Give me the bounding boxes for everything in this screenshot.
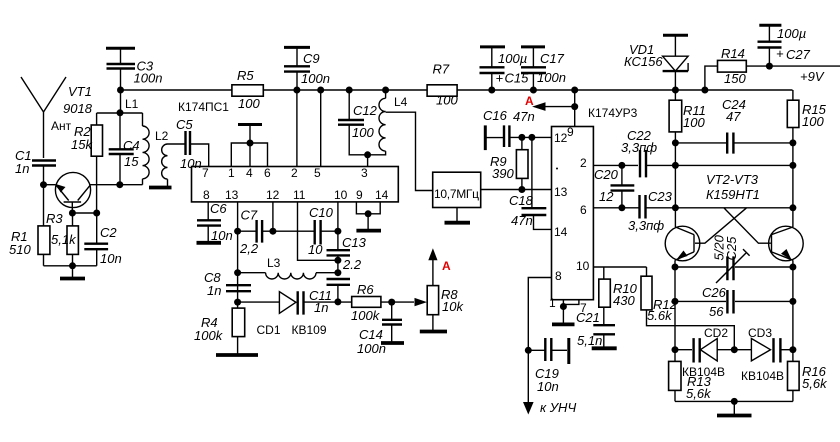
svg-text:12: 12 bbox=[599, 189, 614, 204]
svg-text:C6: C6 bbox=[210, 201, 227, 216]
terminal above C15 bbox=[480, 47, 505, 67]
wire pin6 row bbox=[593, 204, 638, 211]
svg-text:100k: 100k bbox=[351, 308, 381, 323]
capacitor C22 bbox=[621, 128, 675, 177]
svg-text:4: 4 bbox=[246, 166, 253, 180]
terminal above VD1 bbox=[663, 35, 688, 56]
svg-text:12: 12 bbox=[266, 188, 280, 202]
ground bbox=[60, 266, 85, 279]
wire pin13 column bbox=[234, 202, 241, 306]
wire pin2 column bbox=[296, 90, 298, 167]
svg-text:10n: 10n bbox=[100, 251, 122, 266]
filter 10.7MHz bbox=[433, 172, 481, 207]
svg-text:А: А bbox=[525, 94, 534, 108]
svg-text:R7: R7 bbox=[433, 62, 450, 77]
svg-text:2: 2 bbox=[580, 156, 587, 170]
svg-text:10: 10 bbox=[334, 188, 348, 202]
node A arrow at pin9 bbox=[525, 87, 578, 111]
svg-text:1n: 1n bbox=[207, 283, 221, 298]
capacitor C9 bbox=[284, 51, 330, 90]
transistor VT1 bbox=[55, 84, 92, 213]
svg-text:100: 100 bbox=[683, 115, 705, 130]
wire pin10 row bbox=[593, 266, 646, 268]
wire base node bbox=[40, 181, 56, 188]
varicap CD3 КВ104В bbox=[734, 326, 796, 383]
capacitor C18 bbox=[509, 137, 552, 229]
svg-text:2: 2 bbox=[291, 166, 298, 180]
wire row3 collectors bbox=[672, 204, 797, 211]
svg-text:К159НТ1: К159НТ1 bbox=[706, 187, 760, 202]
resistor R5 bbox=[232, 68, 263, 111]
op-amp U1 К174ПС1 bbox=[178, 100, 398, 202]
svg-text:11: 11 bbox=[293, 188, 306, 202]
svg-text:+9V: +9V bbox=[800, 69, 825, 84]
wire pin12 column bbox=[269, 202, 276, 235]
ground bbox=[445, 208, 471, 223]
inductor L3 bbox=[238, 256, 342, 279]
wire left column bbox=[674, 143, 676, 350]
svg-text:100µ: 100µ bbox=[498, 51, 527, 66]
ground bbox=[420, 315, 447, 332]
terminal above C27 bbox=[759, 25, 781, 41]
svg-text:2.2: 2.2 bbox=[342, 257, 362, 272]
svg-text:C14: C14 bbox=[359, 327, 383, 342]
svg-text:C16: C16 bbox=[483, 108, 508, 123]
svg-text:C2: C2 bbox=[100, 225, 117, 240]
capacitor C3 bbox=[107, 59, 163, 91]
transistor VT2 bbox=[665, 172, 760, 261]
svg-text:C9: C9 bbox=[303, 51, 320, 66]
capacitor C23 bbox=[628, 189, 675, 233]
wire bottom row bbox=[44, 262, 97, 269]
resistor R12 bbox=[641, 267, 734, 350]
svg-text:L4: L4 bbox=[394, 95, 408, 109]
svg-text:C21: C21 bbox=[576, 310, 600, 325]
svg-text:К174ПС1: К174ПС1 bbox=[178, 100, 229, 114]
wire L4 tap to filter bbox=[386, 112, 433, 190]
svg-text:C13: C13 bbox=[342, 235, 367, 250]
wire pin10 column bbox=[334, 202, 341, 250]
svg-text:9018: 9018 bbox=[63, 101, 93, 116]
svg-text:8: 8 bbox=[555, 269, 562, 283]
svg-text:5,1k: 5,1k bbox=[51, 232, 77, 247]
capacitor C10 bbox=[273, 205, 338, 257]
svg-text:47: 47 bbox=[726, 109, 741, 124]
svg-text:14: 14 bbox=[375, 188, 389, 202]
svg-text:5.6k: 5.6k bbox=[647, 308, 673, 323]
svg-text:CD2: CD2 bbox=[704, 326, 728, 340]
node A (to R8) bbox=[428, 248, 451, 285]
svg-text:100: 100 bbox=[238, 96, 260, 111]
svg-text:13: 13 bbox=[225, 188, 239, 202]
svg-text:10,7МГц: 10,7МГц bbox=[434, 187, 479, 201]
capacitor C27 bbox=[758, 26, 811, 70]
ground bbox=[197, 226, 222, 243]
ground bbox=[381, 341, 404, 345]
svg-text:L1: L1 bbox=[125, 97, 139, 111]
terminal above C17 bbox=[521, 47, 545, 67]
svg-text:C27: C27 bbox=[786, 47, 811, 62]
capacitor C2 bbox=[84, 213, 121, 266]
varicap CD2 КВ104В bbox=[672, 326, 738, 379]
svg-text:C4: C4 bbox=[123, 138, 140, 153]
svg-text:10k: 10k bbox=[442, 299, 464, 314]
svg-text:VT1: VT1 bbox=[68, 84, 92, 99]
svg-text:9: 9 bbox=[567, 125, 574, 139]
svg-text:100n: 100n bbox=[301, 71, 330, 86]
capacitor C15 bbox=[480, 51, 530, 94]
capacitor C14 bbox=[357, 302, 402, 356]
svg-text:R14: R14 bbox=[721, 46, 745, 61]
inductor L2 bbox=[149, 129, 185, 188]
svg-text:C23: C23 bbox=[648, 189, 673, 204]
wire pin11 column bbox=[298, 202, 338, 260]
resistor R16 bbox=[788, 350, 829, 402]
svg-text:C10: C10 bbox=[309, 205, 334, 220]
svg-text:КВ109: КВ109 bbox=[292, 323, 327, 337]
svg-text:100: 100 bbox=[352, 125, 374, 140]
capacitor C16 bbox=[483, 108, 552, 147]
terminal above C3 bbox=[106, 48, 135, 63]
svg-text:+: + bbox=[776, 46, 784, 61]
svg-text:10: 10 bbox=[576, 259, 590, 273]
resistor R9 bbox=[490, 137, 528, 189]
svg-text:100: 100 bbox=[436, 93, 458, 108]
svg-text:5: 5 bbox=[314, 166, 321, 180]
resistor R3 bbox=[46, 211, 78, 266]
wire pin2 row bbox=[593, 162, 638, 169]
ground bbox=[216, 353, 258, 357]
svg-text:R5: R5 bbox=[237, 68, 254, 83]
svg-text:9: 9 bbox=[356, 188, 363, 202]
arrow to УНЧ bbox=[523, 400, 576, 415]
resistor R6 bbox=[338, 282, 395, 323]
svg-text:+: + bbox=[496, 71, 504, 86]
wire pin8 to C19 node bbox=[525, 278, 552, 403]
svg-text:C18: C18 bbox=[509, 193, 534, 208]
svg-text:510: 510 bbox=[9, 242, 31, 257]
wire pins 1,4,6 bracket bbox=[231, 125, 267, 167]
svg-text:3: 3 bbox=[361, 166, 368, 180]
svg-text:VT2-VT3: VT2-VT3 bbox=[706, 172, 759, 187]
capacitor C26 bbox=[672, 285, 797, 319]
svg-text:430: 430 bbox=[613, 293, 635, 308]
svg-text:100n: 100n bbox=[537, 70, 566, 85]
ground bbox=[717, 401, 752, 415]
svg-text:C20: C20 bbox=[594, 167, 619, 182]
svg-text:к УНЧ: к УНЧ bbox=[540, 400, 576, 415]
svg-text:1: 1 bbox=[228, 166, 235, 180]
svg-text:3,3пф: 3,3пф bbox=[628, 218, 664, 233]
capacitor C17 bbox=[521, 51, 566, 94]
svg-text:8: 8 bbox=[203, 188, 210, 202]
svg-text:6: 6 bbox=[580, 203, 587, 217]
svg-text:А: А bbox=[442, 259, 451, 273]
svg-text:5,6k: 5,6k bbox=[686, 386, 712, 401]
svg-text:C5: C5 bbox=[176, 117, 193, 132]
varicap CD1 КВ109 bbox=[238, 291, 338, 337]
trimmer capacitor C25 bbox=[712, 234, 750, 283]
capacitor C8 bbox=[204, 270, 251, 298]
capacitor C24 bbox=[672, 97, 797, 154]
terminal above C9 bbox=[284, 47, 310, 66]
svg-text:100k: 100k bbox=[194, 328, 224, 343]
svg-text:КС156: КС156 bbox=[624, 54, 663, 69]
svg-text:1: 1 bbox=[549, 296, 556, 310]
svg-text:CD3: CD3 bbox=[748, 326, 772, 340]
wire IC1 pins 9,14 bracket bbox=[356, 202, 380, 217]
wire IC2 pins 1,7 bracket bbox=[560, 300, 579, 310]
svg-text:1n: 1n bbox=[15, 161, 29, 176]
resistor R15 bbox=[787, 90, 826, 143]
svg-text:100: 100 bbox=[802, 114, 824, 129]
svg-text:10n: 10n bbox=[211, 228, 233, 243]
antenna Ант bbox=[21, 77, 72, 158]
svg-text:C12: C12 bbox=[353, 103, 378, 118]
wire emitter row bbox=[69, 210, 100, 217]
svg-text:2,2: 2,2 bbox=[239, 241, 259, 256]
resistor R11 bbox=[669, 90, 706, 143]
svg-text:14: 14 bbox=[554, 225, 568, 239]
svg-text:100µ: 100µ bbox=[777, 26, 806, 41]
zener VD1 КС156 bbox=[624, 42, 688, 94]
svg-text:Ант: Ант bbox=[51, 119, 72, 133]
wire collector bbox=[90, 181, 142, 188]
resistor R1 bbox=[9, 185, 50, 266]
wire pin3 column bbox=[367, 155, 369, 167]
capacitor C21 bbox=[576, 310, 615, 348]
svg-text:5,1n: 5,1n bbox=[577, 333, 602, 348]
svg-text:15: 15 bbox=[124, 154, 139, 169]
capacitor C20 bbox=[594, 165, 634, 207]
svg-text:13: 13 bbox=[554, 185, 568, 199]
resistor R7 bbox=[427, 62, 458, 108]
resistor R13 bbox=[669, 350, 712, 402]
inductor L1 bbox=[125, 97, 149, 185]
capacitor C1 bbox=[15, 148, 56, 185]
resistor R14 bbox=[701, 46, 769, 94]
resistor R2 bbox=[71, 113, 103, 213]
svg-text:150: 150 bbox=[724, 71, 746, 86]
wire tank top rail bbox=[97, 109, 143, 116]
svg-text:R6: R6 bbox=[357, 282, 374, 297]
svg-text:L2: L2 bbox=[155, 129, 169, 143]
svg-text:C17: C17 bbox=[540, 51, 565, 66]
capacitor C11 bbox=[309, 279, 350, 315]
capacitor C4 bbox=[109, 113, 140, 185]
svg-text:10: 10 bbox=[308, 242, 323, 257]
ground bbox=[592, 334, 617, 348]
transistor VT3 bbox=[769, 226, 804, 261]
svg-text:15k: 15k bbox=[71, 137, 93, 152]
wire cross coupling X bbox=[695, 208, 771, 243]
capacitor C19 bbox=[528, 338, 559, 394]
svg-text:56: 56 bbox=[709, 304, 724, 319]
svg-text:47n: 47n bbox=[513, 109, 535, 124]
node C3/L1 bbox=[117, 87, 124, 113]
svg-text:5,6k: 5,6k bbox=[802, 376, 828, 391]
wire row2 right bbox=[672, 162, 797, 169]
svg-text:12: 12 bbox=[554, 131, 568, 145]
svg-text:К174УР3: К174УР3 bbox=[588, 106, 638, 120]
svg-text:100n: 100n bbox=[134, 71, 163, 86]
wire emitter row bbox=[672, 264, 797, 271]
ground bbox=[356, 214, 381, 231]
resistor R4 bbox=[194, 302, 245, 353]
svg-text:R3: R3 bbox=[46, 211, 63, 226]
resistor R10 bbox=[599, 267, 638, 325]
terminal left of C16 bbox=[485, 125, 503, 150]
svg-text:КВ104В: КВ104В bbox=[741, 369, 784, 383]
svg-text:6: 6 bbox=[264, 166, 271, 180]
wire filter output row pin13 bbox=[481, 186, 552, 193]
svg-text:3,3пф: 3,3пф bbox=[621, 140, 657, 155]
capacitor C6 bbox=[197, 201, 233, 243]
terminal right of C19 bbox=[551, 338, 569, 364]
svg-text:CD1: CD1 bbox=[257, 323, 281, 337]
wire bottom row right bbox=[675, 398, 793, 405]
svg-text:47n: 47n bbox=[511, 213, 533, 228]
capacitor C12 bbox=[338, 90, 378, 158]
svg-text:7: 7 bbox=[202, 166, 209, 180]
capacitor C13 bbox=[327, 235, 367, 273]
main bus wire bbox=[121, 87, 793, 94]
svg-text:L3: L3 bbox=[267, 256, 281, 270]
capacitor C7 bbox=[238, 208, 273, 257]
terminal above pin 4 bbox=[238, 123, 262, 126]
inductor L4 bbox=[368, 90, 408, 155]
svg-text:10n: 10n bbox=[537, 379, 559, 394]
ground bbox=[552, 307, 575, 325]
wire +9V bbox=[769, 66, 840, 84]
svg-text:390: 390 bbox=[492, 166, 514, 181]
wire pin5 column bbox=[320, 90, 322, 167]
capacitor C5 bbox=[176, 117, 209, 171]
svg-text:C26: C26 bbox=[702, 285, 727, 300]
svg-text:C7: C7 bbox=[241, 208, 258, 223]
svg-text:C25: C25 bbox=[724, 236, 739, 261]
wire right column bbox=[792, 143, 794, 350]
op-amp U2 К174УР3 bbox=[549, 90, 638, 315]
variable resistor R8 bbox=[392, 286, 465, 315]
